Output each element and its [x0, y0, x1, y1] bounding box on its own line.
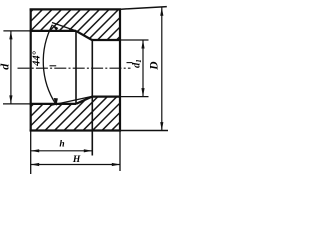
h arrow left: [31, 149, 40, 152]
cone small-end edge and h extension line: [91, 40, 93, 156]
entrance cone top surface: [76, 31, 92, 40]
d arrow bottom: [9, 95, 12, 104]
top face: [30, 8, 121, 10]
h dimension line: [31, 150, 93, 152]
entrance cone bottom surface: [76, 97, 92, 104]
svg-text:h: h: [59, 140, 64, 150]
d extension lines: [3, 31, 30, 104]
hole top wall: [92, 39, 120, 41]
svg-text:D: D: [149, 61, 161, 71]
44 deg dimension arc: [43, 25, 56, 105]
D arrow bottom: [160, 122, 163, 131]
d1 extension lines: [120, 40, 149, 97]
small tick left of d1: [127, 62, 133, 64]
d1 dimension line: [142, 40, 144, 97]
H arrow right: [112, 163, 121, 166]
bottom face: [30, 129, 121, 131]
D arrow top: [160, 7, 163, 16]
arc arrowhead bottom: [54, 98, 58, 106]
h arrow right: [84, 149, 93, 152]
d arrow top: [9, 31, 12, 40]
cone angle extension line top: [52, 23, 76, 31]
d1 arrow bottom: [141, 88, 144, 97]
svg-text:44°: 44°: [32, 50, 43, 67]
H right extension: [119, 131, 121, 171]
recess shoulder edge: [75, 31, 77, 104]
D dimension line: [161, 7, 163, 130]
hole bottom wall: [92, 95, 120, 97]
section hatching, lower block: [6, 95, 157, 132]
left face: [30, 9, 32, 132]
svg-text:H: H: [72, 155, 81, 165]
H arrow left: [31, 163, 40, 166]
d dimension line: [10, 31, 12, 104]
arc arrowhead top: [52, 24, 59, 30]
H dimension line: [31, 164, 121, 166]
h left extension: [30, 131, 32, 174]
44 deg leader tail: [50, 65, 57, 67]
right face: [119, 9, 121, 132]
die body contour: [30, 9, 121, 132]
cone angle extension line bottom: [50, 96, 92, 105]
section hatching, upper block: [1, 8, 149, 42]
centerline (axis): [18, 67, 131, 69]
recess bottom wall: [30, 103, 76, 105]
svg-text:d: d: [0, 63, 11, 70]
recess top wall: [30, 30, 76, 32]
d1 arrow top: [141, 40, 144, 49]
D extension lines: [121, 7, 168, 131]
